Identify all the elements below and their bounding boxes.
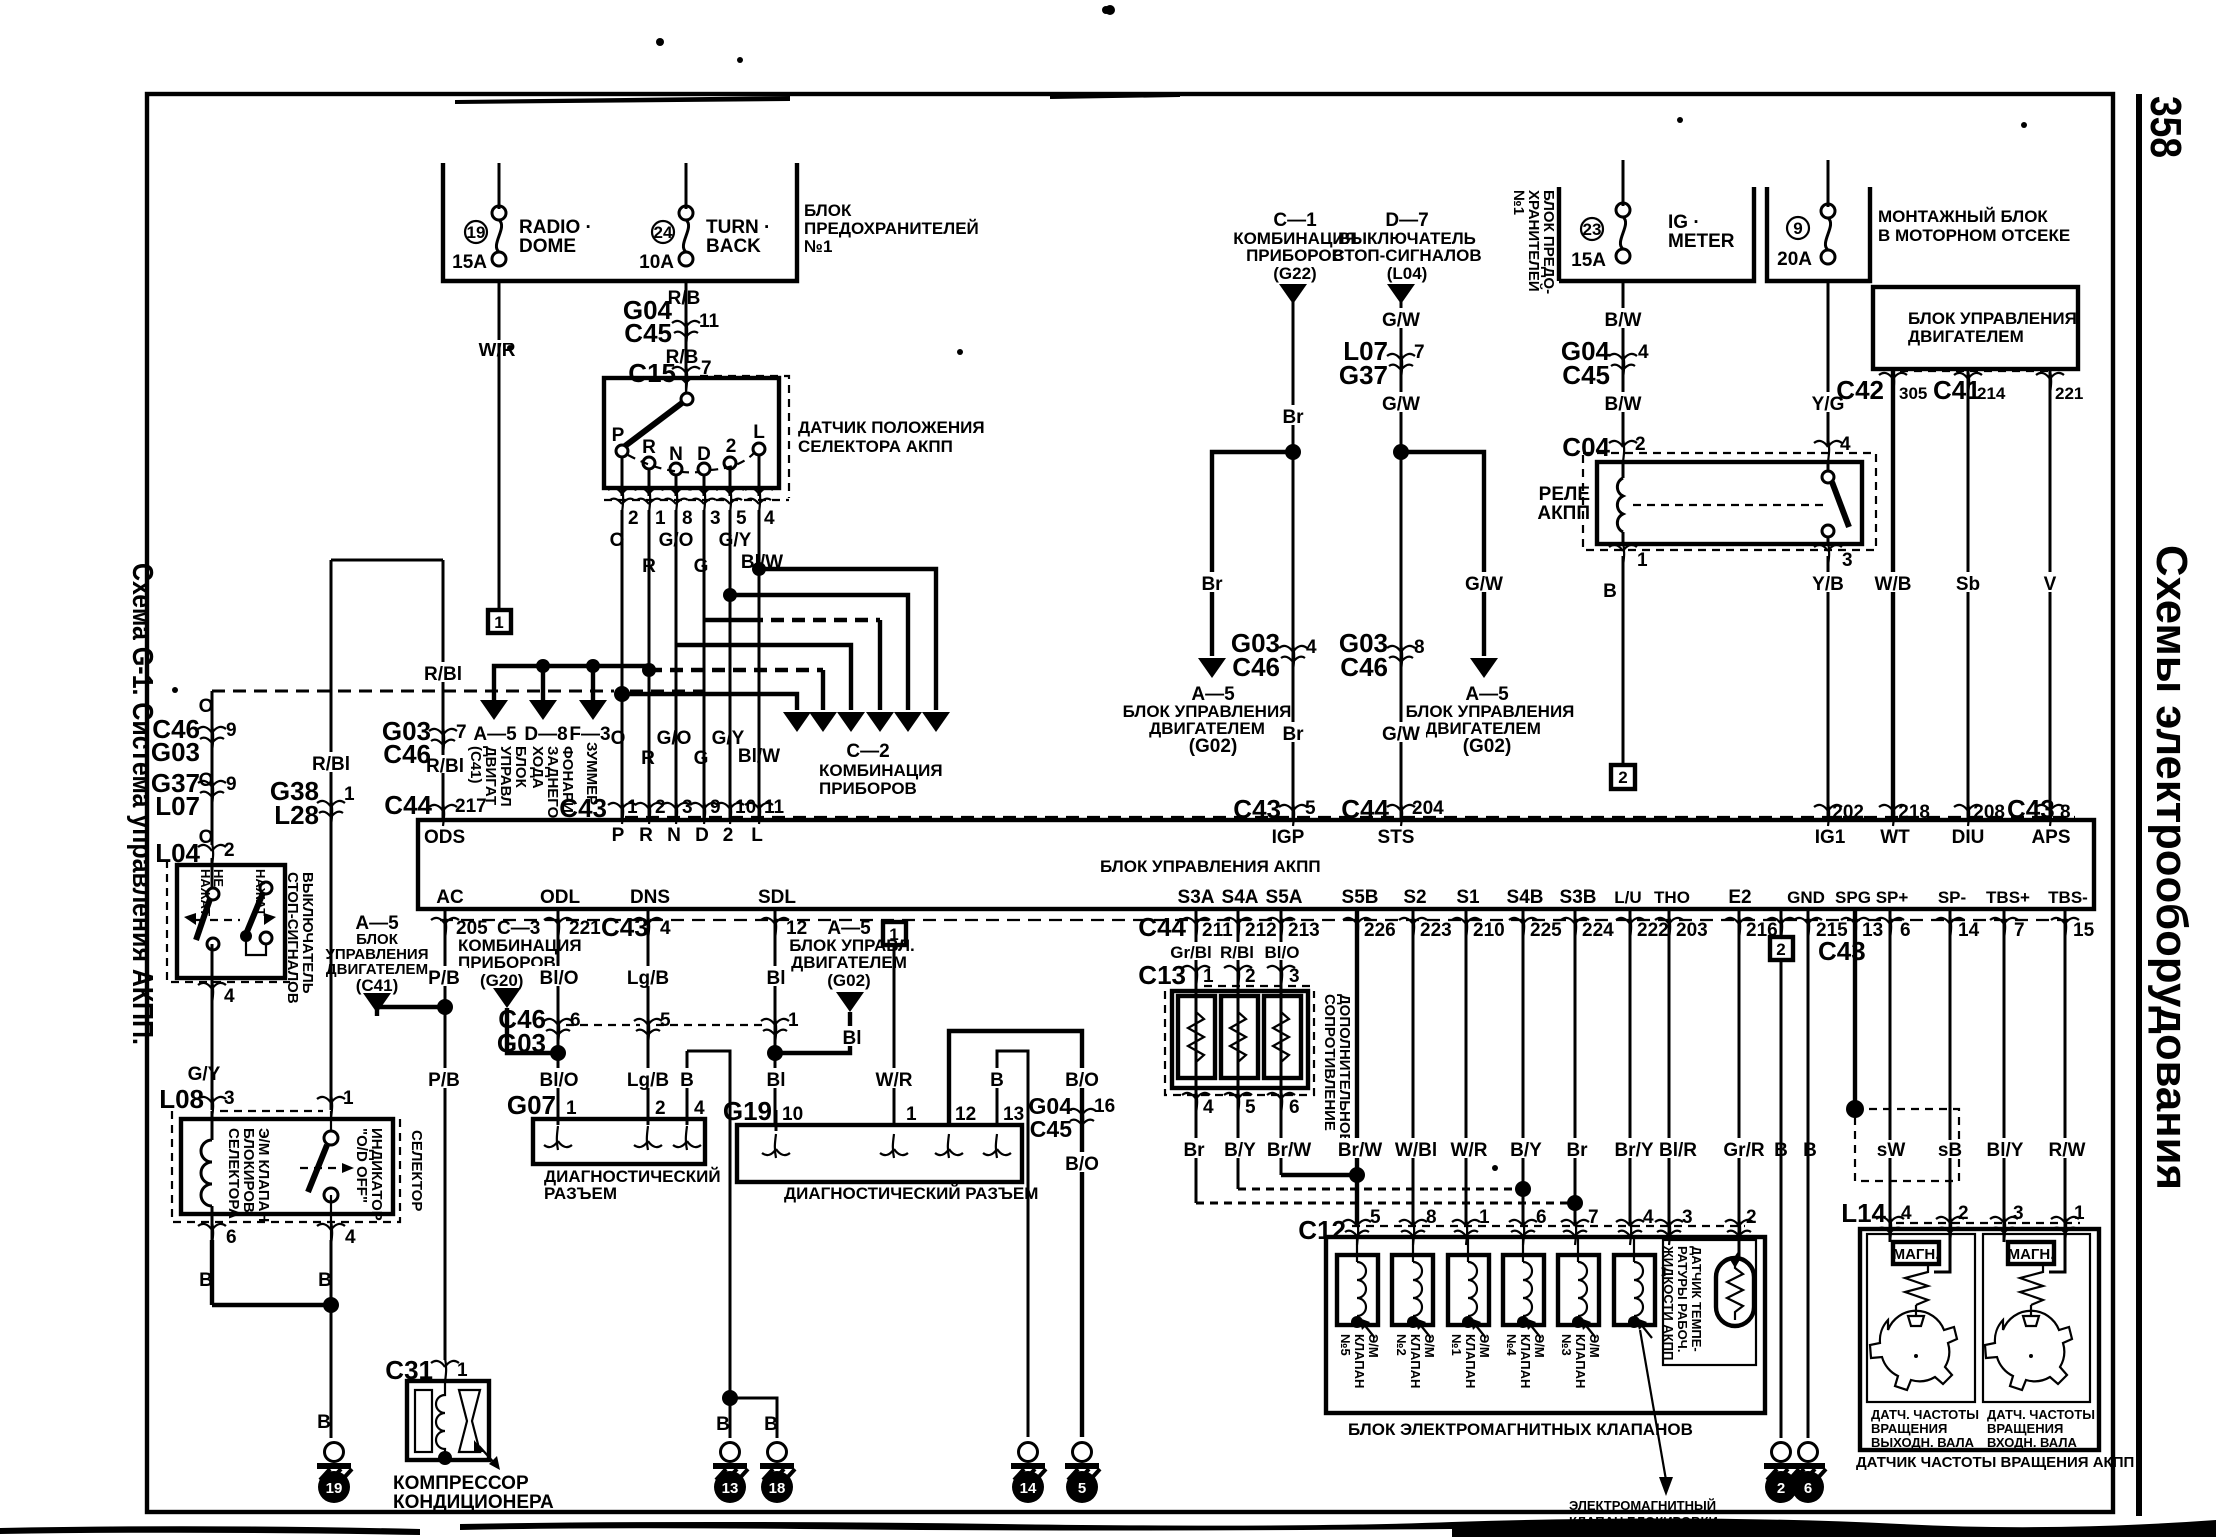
svg-text:ВЫХОДН. ВАЛА: ВЫХОДН. ВАЛА [1871,1435,1975,1450]
svg-text:1: 1 [1479,1207,1490,1228]
wire R/Bl right branch to ODS [442,560,445,820]
svg-text:15A: 15A [452,252,487,273]
svg-text:DNS: DNS [630,887,670,908]
svg-text:2: 2 [1958,1203,1969,1224]
svg-text:R: R [639,825,653,846]
svg-text:R/Bl: R/Bl [312,754,350,775]
svg-text:2: 2 [655,1098,666,1119]
svg-text:1: 1 [343,1088,354,1109]
additional resistance block C13 [1172,991,1308,1088]
svg-text:1: 1 [566,1098,577,1119]
svg-text:C—1: C—1 [1273,210,1317,231]
svg-text:225: 225 [1530,920,1562,941]
svg-text:R: R [641,748,655,769]
svg-text:ДВИГАТЕЛЕМ: ДВИГАТЕЛЕМ [791,953,907,972]
fuse box IG-METER [1559,187,1754,281]
svg-text:DOME: DOME [519,236,576,257]
Br jog to S3B wire [1196,1202,1575,1205]
svg-text:TBS-: TBS- [2048,888,2088,907]
svg-text:Э/М КЛАПАНБЛОКИРОВСЕЛЕКТОРА: Э/М КЛАПАНБЛОКИРОВСЕЛЕКТОРА [225,1128,272,1222]
svg-text:2: 2 [224,840,235,861]
svg-text:SP-: SP- [1938,888,1966,907]
svg-text:214: 214 [1977,384,2006,403]
svg-text:Схемы электрооборудования: Схемы электрооборудования [2147,545,2196,1190]
svg-text:13: 13 [1862,920,1883,941]
svg-text:V: V [2044,574,2057,595]
svg-text:S4A: S4A [1222,887,1259,908]
svg-text:C45: C45 [1562,360,1610,390]
svg-text:IGP: IGP [1272,827,1305,848]
node box 1 to W/R wire [883,922,906,945]
svg-text:ВЫКЛЮЧАТЕЛЬСТОП-СИГНАЛОВ: ВЫКЛЮЧАТЕЛЬСТОП-СИГНАЛОВ [284,872,316,1004]
svg-text:C15: C15 [628,358,676,388]
svg-text:10: 10 [782,1104,803,1125]
svg-text:15: 15 [2073,920,2095,941]
R/Bl label left branch [304,752,362,772]
output shaft speed sensor [1867,1234,1975,1402]
dashed connector line below ECU [440,919,2068,921]
svg-text:Br/W: Br/W [1267,1140,1311,1161]
svg-text:B: B [764,1414,778,1435]
svg-text:P: P [612,425,625,446]
svg-text:2: 2 [723,825,734,846]
svg-text:DIU: DIU [1952,827,1985,848]
svg-text:1: 1 [788,1010,799,1031]
svg-text:19: 19 [326,1480,343,1497]
svg-text:O: O [199,696,214,717]
svg-text:G/W: G/W [1382,394,1420,415]
node box 2 (off-page ref) [1611,765,1635,789]
svg-text:203: 203 [1676,920,1708,941]
svg-text:Bl: Bl [767,968,786,989]
svg-text:Br: Br [1282,724,1304,745]
svg-text:4: 4 [1901,1203,1912,1224]
svg-text:14: 14 [1020,1480,1037,1497]
svg-text:8: 8 [1414,637,1425,658]
svg-text:3: 3 [1682,1207,1693,1228]
svg-text:2: 2 [655,797,666,818]
svg-text:СЕЛЕКТОР: СЕЛЕКТОР [408,1130,425,1211]
svg-text:5: 5 [736,508,747,529]
connectors under ECU right [1343,915,1371,939]
svg-text:SP+: SP+ [1876,888,1909,907]
svg-text:G/W: G/W [1382,310,1420,331]
tap G/Y to C-2 [723,588,737,602]
solenoid coil L08 [211,1111,214,1140]
svg-text:4: 4 [660,918,671,939]
svg-text:КОМПРЕССОР: КОМПРЕССОР [393,1473,529,1494]
svg-text:МАГН.: МАГН. [1893,1246,1940,1263]
svg-text:8: 8 [1426,1207,1437,1228]
stoplight switch L04 box [167,860,290,982]
svg-text:ЭЛЕКТРОМАГНИТНЫЙ: ЭЛЕКТРОМАГНИТНЫЙ [1569,1498,1716,1513]
svg-text:(G02): (G02) [827,971,870,990]
sensors outer box [1860,1229,2099,1450]
svg-text:1: 1 [2074,1203,2085,1224]
wire B/W from F23 [1622,281,1625,445]
svg-text:C43: C43 [601,912,649,942]
svg-text:10: 10 [735,797,756,818]
svg-text:O: O [611,728,626,749]
svg-text:Lg/B: Lg/B [627,1070,669,1091]
svg-text:C13: C13 [1138,960,1186,990]
svg-text:226: 226 [1364,920,1396,941]
svg-text:B/Y: B/Y [1510,1140,1542,1161]
svg-text:IG ·: IG · [1668,212,1700,233]
svg-text:G03: G03 [151,737,200,767]
wire colour labels row [1330,1138,1450,1158]
solenoid 6 (lock-up) [1614,1237,1655,1338]
svg-text:Sb: Sb [1956,574,1980,595]
ground 18 [760,1443,795,1481]
svg-text:11: 11 [699,311,720,332]
wire SP+ sW [1889,909,1892,1230]
svg-text:R/Bl: R/Bl [424,664,462,685]
svg-text:ВРАЩЕНИЯ: ВРАЩЕНИЯ [1871,1421,1947,1436]
svg-text:КОНДИЦИОНЕРА: КОНДИЦИОНЕРА [393,1492,554,1513]
svg-text:6: 6 [1289,1097,1300,1118]
svg-text:7: 7 [1588,1207,1599,1228]
svg-text:ПРЕДОХРАНИТЕЛЕЙ: ПРЕДОХРАНИТЕЛЕЙ [804,219,979,238]
svg-text:1: 1 [457,1360,468,1381]
svg-text:2: 2 [1777,1480,1785,1497]
svg-text:GND: GND [1787,888,1825,907]
svg-text:23: 23 [1583,220,1602,239]
svg-text:G07: G07 [507,1090,556,1120]
svg-text:НАЖАТ: НАЖАТ [253,869,268,916]
wire Y/B to IG1 [1827,556,1830,820]
ground 6 [1791,1443,1826,1481]
wire SP- sB [1949,909,1952,1230]
selector box dashed [172,1111,400,1222]
svg-text:E2: E2 [1728,887,1751,908]
svg-text:(G02): (G02) [1463,736,1512,757]
svg-text:G/Y: G/Y [188,1064,221,1085]
fuse F19 [492,206,506,266]
svg-text:2: 2 [1776,940,1785,959]
svg-text:ДВИГАТЕЛЕМ: ДВИГАТЕЛЕМ [1908,327,2024,346]
svg-text:3: 3 [2013,1203,2024,1224]
wires contacts to connector row [621,457,624,496]
relay coil [1622,462,1625,478]
svg-text:R/Bl: R/Bl [426,756,464,777]
svg-text:G03: G03 [497,1028,546,1058]
svg-text:B: B [1803,1140,1817,1161]
svg-text:N: N [667,825,681,846]
wire O [621,510,624,820]
wire G [703,510,706,820]
fuse F23 [1616,203,1630,263]
svg-text:2: 2 [1635,434,1646,455]
svg-text:6: 6 [1900,920,1911,941]
svg-text:3: 3 [1842,550,1853,571]
svg-text:5: 5 [1370,1207,1381,1228]
B/O label upper [1056,1068,1108,1088]
svg-text:sB: sB [1938,1140,1962,1161]
fuse F24 [685,163,688,209]
svg-text:19: 19 [467,223,486,242]
Br/W jog to S5B wire [1281,1173,1357,1177]
svg-text:Bl/O: Bl/O [539,1070,578,1091]
svg-text:МАГН.: МАГН. [2008,1246,2055,1263]
svg-text:S5A: S5A [1266,887,1303,908]
svg-text:THO: THO [1654,888,1690,907]
wire R/B from fuse24 down to C15 [685,281,688,378]
svg-text:5: 5 [1305,798,1316,819]
svg-text:C44: C44 [1138,912,1186,942]
svg-text:C45: C45 [624,318,672,348]
svg-text:13: 13 [722,1480,739,1497]
svg-text:6: 6 [570,1010,581,1031]
svg-text:1: 1 [655,508,666,529]
svg-text:224: 224 [1582,920,1614,941]
svg-text:213: 213 [1288,920,1320,941]
svg-text:B: B [1603,581,1617,602]
tap Bl/W to C-2 [752,562,766,576]
svg-text:G19: G19 [723,1096,772,1126]
junction to right A-5 branch [1393,444,1409,460]
fuse F9 [1821,204,1835,264]
svg-text:S2: S2 [1403,887,1426,908]
svg-text:R/Bl: R/Bl [1220,943,1254,962]
svg-text:SDL: SDL [758,887,796,908]
ground 5 [1065,1443,1100,1481]
svg-text:СЕЛЕКТОРА АКПП: СЕЛЕКТОРА АКПП [798,437,953,456]
svg-text:APS: APS [2031,827,2070,848]
svg-text:G/O: G/O [657,728,692,749]
svg-text:Br: Br [1282,407,1304,428]
svg-text:R/B: R/B [668,288,701,309]
svg-text:D—7: D—7 [1385,210,1428,231]
svg-text:БЛОК УПРАВЛЕНИЯ АКПП: БЛОК УПРАВЛЕНИЯ АКПП [1100,857,1321,876]
wire B to node 2 [1622,556,1625,765]
svg-text:Bl/O: Bl/O [539,968,578,989]
svg-text:305: 305 [1899,384,1927,403]
svg-text:СТОП-СИГНАЛОВ: СТОП-СИГНАЛОВ [1332,246,1481,265]
svg-text:W/R: W/R [876,1070,913,1091]
arrow C-3 [493,988,521,1008]
wire stub fuse 19 [498,163,501,209]
svg-text:1: 1 [1203,966,1214,987]
svg-text:212: 212 [1245,920,1277,941]
svg-text:W/R: W/R [1451,1140,1488,1161]
svg-text:R: R [642,437,656,458]
svg-text:БЛОК УПРАВЛЕНИЯ: БЛОК УПРАВЛЕНИЯ [1908,309,2077,328]
svg-text:Bl/W: Bl/W [738,746,780,767]
svg-text:18: 18 [769,1480,786,1497]
svg-text:Lg/B: Lg/B [627,968,669,989]
arrow D-8 [529,700,557,720]
svg-text:11: 11 [764,797,785,818]
svg-text:Gr/R: Gr/R [1723,1140,1764,1161]
svg-text:12: 12 [955,1104,976,1125]
svg-text:W/B: W/B [1875,574,1912,595]
svg-text:ВХОДН. ВАЛА: ВХОДН. ВАЛА [1987,1435,2077,1450]
svg-text:(G22): (G22) [1273,264,1316,283]
svg-text:4: 4 [764,508,775,529]
svg-text:WT: WT [1880,827,1910,848]
solenoid 2 [1392,1237,1437,1388]
resistors [1188,1012,1204,1062]
arrow A-5 (engine ECU) [1198,658,1226,678]
svg-text:2: 2 [628,508,639,529]
ground 2 [1764,1443,1799,1481]
R/Bl label upper [416,662,474,682]
B/Y jog to S4B wire [1238,1188,1523,1191]
tap O to C-2 [614,686,630,702]
svg-text:B/O: B/O [1065,1154,1099,1175]
svg-text:В МОТОРНОМ ОТСЕКЕ: В МОТОРНОМ ОТСЕКЕ [1878,226,2070,245]
svg-text:C04: C04 [1562,432,1610,462]
svg-text:C46: C46 [1232,652,1280,682]
relay dashed outline [1583,453,1876,550]
svg-text:R/W: R/W [2049,1140,2086,1161]
wire Br IGP [1292,296,1295,820]
tap G to C-2 (dashed) [704,618,750,622]
arrow A-5 [480,700,508,720]
wire ODL / Bl/O [557,909,560,1125]
svg-text:P/B: P/B [428,968,460,989]
selector common contact and lever [681,393,693,405]
svg-text:РЕЛЕ: РЕЛЕ [1539,484,1590,505]
svg-text:РАЗЪЕМ: РАЗЪЕМ [544,1184,617,1203]
six arrows to C-2 [783,712,811,732]
O/D switch in selector [330,1111,332,1132]
svg-text:ODL: ODL [540,887,581,908]
svg-text:G/Y: G/Y [719,530,752,551]
relay pins 1 and 3 [1609,542,1637,566]
gear [1870,1311,1957,1390]
svg-text:6: 6 [1804,1480,1812,1497]
wire GND [1807,909,1810,1438]
svg-text:METER: METER [1668,231,1735,252]
solenoid 5 [1558,1237,1602,1388]
svg-text:13: 13 [1003,1104,1024,1125]
svg-text:МОНТАЖНЫЙ БЛОК: МОНТАЖНЫЙ БЛОК [1878,207,2048,226]
svg-text:1: 1 [627,797,638,818]
svg-text:4: 4 [1306,637,1317,658]
wire G/O [675,510,678,820]
wire R [648,510,651,820]
svg-text:ВРАЩЕНИЯ: ВРАЩЕНИЯ [1987,1421,2063,1436]
svg-text:L: L [751,825,763,846]
svg-text:TBS+: TBS+ [1986,888,2030,907]
gear [1985,1311,2072,1390]
selector sensor dashed outline [700,376,789,498]
svg-text:Схема G-1. Система управления: Схема G-1. Система управления АКПП. [126,563,158,1045]
svg-text:C12: C12 [1298,1215,1346,1245]
svg-text:TURN ·: TURN · [706,217,770,238]
svg-text:C43: C43 [559,793,607,823]
svg-text:B: B [990,1070,1004,1091]
svg-text:10A: 10A [639,252,674,273]
wire R/Bl left branch [330,560,333,1110]
B/O bracket to pin 12 [949,1031,1082,1437]
svg-text:B: B [680,1070,694,1091]
wires B to ground [210,1240,214,1305]
svg-text:8: 8 [682,508,693,529]
svg-text:2: 2 [1245,966,1256,987]
svg-text:2: 2 [1618,768,1627,787]
svg-text:КОМБИНАЦИЯ: КОМБИНАЦИЯ [819,761,943,780]
arrow from D-7 [1387,284,1415,304]
svg-text:24: 24 [654,223,673,242]
svg-text:1: 1 [1637,550,1648,571]
svg-text:B/W: B/W [1605,394,1642,415]
arrow F-3 [579,700,607,720]
wire DNS / Lg/B [647,909,650,1125]
svg-text:(L04): (L04) [1387,264,1428,283]
wire TBS- R/W [2064,909,2067,1230]
svg-text:P: P [612,825,625,846]
svg-text:ДАТЧ. ЧАСТОТЫ: ДАТЧ. ЧАСТОТЫ [1987,1407,2095,1422]
svg-text:Bl/R: Bl/R [1659,1140,1697,1161]
selector box [181,1119,393,1214]
svg-text:211: 211 [1202,920,1233,941]
C43 connector row for P..L pins [608,800,636,824]
svg-text:C44: C44 [384,790,432,820]
input shaft speed sensor [1983,1234,2090,1402]
tap R to C-2 (dashed) [642,663,656,677]
wire AC / P/B [444,909,447,1360]
connector row C42/305 C41/214 221 [1891,369,1895,820]
junction to A-5 branch [1285,444,1301,460]
relay box [1597,462,1862,544]
svg-text:2: 2 [726,436,737,457]
solenoid 3 [1448,1237,1492,1388]
svg-text:N: N [669,444,683,465]
svg-text:222: 222 [1637,920,1669,941]
svg-text:L07: L07 [155,791,200,821]
svg-text:Br/W: Br/W [1338,1140,1382,1161]
svg-text:L08: L08 [159,1084,204,1114]
L04 switch contacts [207,888,219,900]
svg-text:B/O: B/O [1065,1070,1099,1091]
svg-text:Bl: Bl [843,1028,862,1049]
svg-text:9: 9 [710,797,721,818]
relay switch [1822,471,1834,483]
svg-text:AC: AC [436,887,464,908]
svg-text:6: 6 [1536,1207,1547,1228]
wire SPG with shield box [1853,909,1857,1109]
selector contacts P R N D 2 L [616,445,628,457]
svg-text:210: 210 [1473,920,1505,941]
svg-text:L28: L28 [274,800,319,830]
svg-text:БЛОК ЭЛЕКТРОМАГНИТНЫХ КЛАПАНОВ: БЛОК ЭЛЕКТРОМАГНИТНЫХ КЛАПАНОВ [1348,1420,1693,1439]
svg-text:20A: 20A [1777,249,1812,270]
svg-text:C46: C46 [383,739,431,769]
svg-text:1: 1 [344,784,355,805]
svg-text:STS: STS [1378,827,1415,848]
ground 14 [1011,1443,1046,1481]
temperature sensor box [1663,1240,1756,1365]
svg-text:4: 4 [1203,1097,1214,1118]
svg-text:4: 4 [224,986,235,1007]
svg-text:IG1: IG1 [1815,827,1846,848]
wire SDL / Bl [774,909,777,1125]
svg-text:Br: Br [1566,1140,1588,1161]
B/O label lower [1056,1152,1108,1172]
svg-text:1: 1 [494,613,503,632]
svg-text:Y/B: Y/B [1812,574,1844,595]
svg-text:221: 221 [2055,384,2083,403]
svg-text:7: 7 [456,722,467,743]
svg-text:1: 1 [889,925,898,944]
svg-text:L: L [753,422,765,443]
svg-text:ДАТЧИК ЧАСТОТЫ ВРАЩЕНИЯ АКПП: ДАТЧИК ЧАСТОТЫ ВРАЩЕНИЯ АКПП [1856,1454,2134,1471]
svg-text:S3B: S3B [1560,887,1597,908]
svg-text:15A: 15A [1571,250,1606,271]
